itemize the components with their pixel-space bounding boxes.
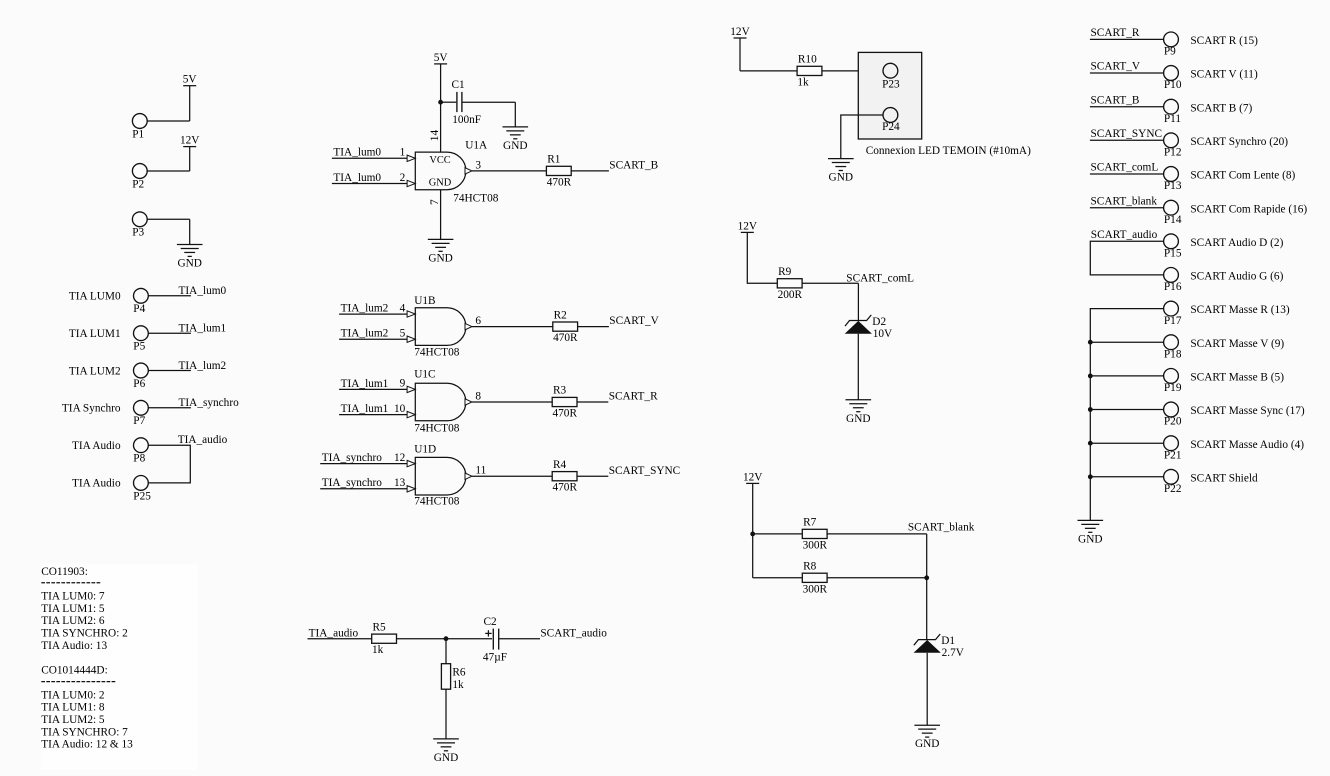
wire xyxy=(339,338,407,340)
svg-text:R10: R10 xyxy=(798,54,817,66)
connector P15 xyxy=(1164,234,1182,260)
wire xyxy=(740,70,797,72)
svg-text:P10: P10 xyxy=(1164,79,1182,91)
svg-text:P16: P16 xyxy=(1164,281,1182,293)
wire xyxy=(147,120,190,122)
svg-text:P2: P2 xyxy=(132,178,144,190)
svg-text:P19: P19 xyxy=(1164,382,1182,394)
svg-text:11: 11 xyxy=(475,465,486,477)
svg-text:SCART Masse V (9): SCART Masse V (9) xyxy=(1190,338,1284,350)
connector P22 xyxy=(1164,469,1182,495)
svg-text:8: 8 xyxy=(475,390,481,402)
svg-text:5: 5 xyxy=(400,328,406,340)
svg-text:SCART_blank: SCART_blank xyxy=(908,522,975,534)
svg-text:SCART Audio D (2): SCART Audio D (2) xyxy=(1190,237,1283,249)
wire xyxy=(1090,38,1164,40)
wire ground bus xyxy=(1090,309,1163,521)
svg-text:12V: 12V xyxy=(180,135,200,147)
svg-text:R1: R1 xyxy=(547,154,560,166)
wire xyxy=(189,86,191,121)
wire xyxy=(189,219,191,244)
svg-text:SCART_SYNC: SCART_SYNC xyxy=(1091,128,1163,140)
wire GND pin xyxy=(440,190,442,240)
wire xyxy=(1090,173,1164,175)
svg-text:SCART_comL: SCART_comL xyxy=(846,272,914,284)
resistor R5 xyxy=(372,621,397,656)
resistor R7 xyxy=(802,517,827,552)
junction xyxy=(438,100,443,105)
junction xyxy=(1088,474,1093,479)
wire xyxy=(857,283,859,320)
wire xyxy=(747,232,777,283)
svg-text:6: 6 xyxy=(475,315,481,327)
svg-text:47µF: 47µF xyxy=(483,651,507,663)
junction xyxy=(1088,340,1093,345)
svg-text:GND: GND xyxy=(829,172,853,184)
svg-text:TIA_lum1: TIA_lum1 xyxy=(179,323,227,335)
ground xyxy=(433,739,459,764)
connector P21 xyxy=(1164,436,1182,462)
svg-text:7: 7 xyxy=(429,199,441,205)
svg-text:TIA SYNCHRO: 7: TIA SYNCHRO: 7 xyxy=(41,726,128,738)
wire xyxy=(822,70,883,72)
connector P12 xyxy=(1164,133,1182,159)
svg-text:TIA Audio: 13: TIA Audio: 13 xyxy=(41,640,107,652)
svg-text:P9: P9 xyxy=(1164,46,1176,58)
wire xyxy=(1090,375,1163,377)
svg-text:SCART Com Rapide (16): SCART Com Rapide (16) xyxy=(1190,203,1307,215)
svg-text:Connexion LED TEMOIN (#10mA): Connexion LED TEMOIN (#10mA) xyxy=(866,145,1031,157)
wire xyxy=(577,475,608,477)
svg-text:14: 14 xyxy=(429,130,441,142)
svg-text:12V: 12V xyxy=(730,26,750,38)
wire xyxy=(148,370,191,372)
svg-text:VCC: VCC xyxy=(429,155,450,166)
wire xyxy=(339,313,407,315)
wire xyxy=(320,488,407,490)
svg-text:P3: P3 xyxy=(132,227,144,239)
wire xyxy=(802,282,858,284)
ground xyxy=(503,127,529,152)
AND gate U1A 74HCT08 xyxy=(400,140,499,205)
ground xyxy=(177,245,203,270)
connector P13 xyxy=(1164,167,1182,193)
svg-text:R8: R8 xyxy=(803,561,817,573)
svg-text:U1D: U1D xyxy=(414,444,436,456)
wire xyxy=(189,147,191,171)
wire xyxy=(472,326,553,328)
svg-text:GND: GND xyxy=(915,738,939,750)
wire xyxy=(332,183,407,185)
wire xyxy=(1090,106,1164,108)
svg-text:TIA LUM1: TIA LUM1 xyxy=(69,328,121,340)
svg-text:SCART_SYNC: SCART_SYNC xyxy=(609,465,681,477)
svg-text:TIA_synchro: TIA_synchro xyxy=(322,477,383,489)
resistor R10 xyxy=(797,54,822,89)
svg-text:74HCT08: 74HCT08 xyxy=(414,495,460,507)
wire xyxy=(514,102,516,127)
svg-text:GND: GND xyxy=(846,413,870,425)
svg-text:R6: R6 xyxy=(452,666,466,678)
svg-text:1k: 1k xyxy=(452,679,464,691)
AND gate U1D 74HCT08 xyxy=(394,444,486,508)
wire xyxy=(472,475,552,477)
wire xyxy=(147,218,190,220)
wire xyxy=(339,388,407,390)
wire xyxy=(857,334,859,400)
svg-text:SCART Com Lente (8): SCART Com Lente (8) xyxy=(1190,170,1295,182)
wire xyxy=(578,326,609,328)
resistor R6 1k xyxy=(441,664,466,691)
ground xyxy=(428,239,454,264)
svg-text:P5: P5 xyxy=(133,341,145,353)
connector P7 xyxy=(133,400,148,427)
svg-text:TIA Audio: TIA Audio xyxy=(72,440,121,452)
svg-text:SCART_audio: SCART_audio xyxy=(1091,229,1158,241)
wire xyxy=(148,332,191,334)
svg-text:300R: 300R xyxy=(803,583,828,595)
svg-text:74HCT08: 74HCT08 xyxy=(414,346,460,358)
svg-text:SCART_R: SCART_R xyxy=(1091,27,1140,39)
wire xyxy=(841,115,883,159)
svg-text:SCART_R: SCART_R xyxy=(609,391,658,403)
svg-text:TIA Synchro: TIA Synchro xyxy=(62,403,121,415)
wire xyxy=(472,401,552,403)
svg-text:300R: 300R xyxy=(803,539,828,551)
connector P2 xyxy=(132,164,147,191)
wire SCART_audio fork xyxy=(1090,241,1163,275)
svg-text:TIA_lum2: TIA_lum2 xyxy=(179,360,227,372)
connector P19 xyxy=(1164,369,1182,395)
junction xyxy=(1088,407,1093,412)
connector P1 xyxy=(132,114,147,141)
power 5V xyxy=(183,74,198,86)
junction xyxy=(924,575,929,580)
wire xyxy=(1090,341,1163,343)
svg-text:C1: C1 xyxy=(452,79,465,91)
svg-text:R7: R7 xyxy=(803,517,817,529)
resistor R8 xyxy=(802,561,827,596)
svg-text:P11: P11 xyxy=(1164,113,1181,125)
svg-text:10: 10 xyxy=(394,403,406,415)
connector P6 xyxy=(133,363,148,390)
svg-text:1k: 1k xyxy=(797,76,809,88)
capacitor C1 100nF xyxy=(441,79,481,126)
wire xyxy=(148,295,191,297)
svg-text:9: 9 xyxy=(400,378,406,390)
svg-text:P12: P12 xyxy=(1164,147,1182,159)
wire xyxy=(577,401,608,403)
resistor R3 xyxy=(552,385,577,420)
svg-text:200R: 200R xyxy=(778,289,803,301)
wire xyxy=(320,463,407,465)
svg-text:SCART Shield: SCART Shield xyxy=(1190,472,1258,484)
svg-text:13: 13 xyxy=(394,477,406,489)
svg-text:SCART Masse Sync (17): SCART Masse Sync (17) xyxy=(1190,405,1305,417)
wire xyxy=(926,534,928,640)
svg-text:P22: P22 xyxy=(1164,483,1182,495)
svg-text:P4: P4 xyxy=(133,303,145,315)
svg-text:P17: P17 xyxy=(1164,315,1182,327)
power 12V xyxy=(743,471,763,483)
svg-text:TIA LUM0: 2: TIA LUM0: 2 xyxy=(41,689,105,701)
svg-text:P20: P20 xyxy=(1164,416,1182,428)
AND gate U1B 74HCT08 xyxy=(400,295,482,359)
svg-text:TIA_lum0: TIA_lum0 xyxy=(333,172,381,184)
svg-text:P14: P14 xyxy=(1164,214,1182,226)
svg-text:SCART V (11): SCART V (11) xyxy=(1190,69,1258,81)
svg-text:R5: R5 xyxy=(373,621,387,633)
wire xyxy=(1090,207,1164,209)
connector P23 xyxy=(882,63,900,90)
svg-text:1: 1 xyxy=(400,147,406,159)
svg-text:TIA_lum0: TIA_lum0 xyxy=(179,285,227,297)
wire xyxy=(462,101,515,103)
svg-text:GND: GND xyxy=(177,258,201,270)
svg-text:U1A: U1A xyxy=(465,140,488,152)
connector P11 xyxy=(1164,99,1181,125)
svg-text:P6: P6 xyxy=(133,378,145,390)
svg-text:SCART Audio G (6): SCART Audio G (6) xyxy=(1190,271,1283,283)
wire xyxy=(445,689,447,739)
resistor R4 xyxy=(552,459,577,494)
svg-text:R2: R2 xyxy=(554,309,568,321)
connector P16 xyxy=(1164,268,1182,294)
svg-text:TIA_lum2: TIA_lum2 xyxy=(341,328,389,340)
svg-text:TIA_audio: TIA_audio xyxy=(178,434,228,446)
svg-text:R9: R9 xyxy=(778,266,792,278)
connector P5 xyxy=(133,326,148,353)
svg-text:10V: 10V xyxy=(873,328,893,340)
connector P9 xyxy=(1164,32,1179,58)
wire xyxy=(445,639,447,664)
svg-text:SCART_blank: SCART_blank xyxy=(1091,195,1158,207)
svg-text:5V: 5V xyxy=(183,74,198,86)
svg-text:TIA LUM2: 6: TIA LUM2: 6 xyxy=(41,615,105,627)
ground xyxy=(828,159,854,184)
connector P4 xyxy=(133,288,148,315)
wire xyxy=(308,638,372,640)
svg-text:SCART Masse Audio (4): SCART Masse Audio (4) xyxy=(1190,439,1304,451)
wire xyxy=(827,577,927,579)
zener diode D2 xyxy=(845,315,893,340)
wire xyxy=(147,170,190,172)
svg-text:U1C: U1C xyxy=(414,368,435,380)
svg-text:TIA LUM0: 7: TIA LUM0: 7 xyxy=(41,591,105,603)
wire xyxy=(499,638,540,640)
svg-text:C2: C2 xyxy=(484,616,498,628)
wire xyxy=(148,407,191,409)
svg-text:D1: D1 xyxy=(941,635,955,647)
wire xyxy=(397,638,493,640)
svg-text:1k: 1k xyxy=(372,644,384,656)
wire xyxy=(1090,72,1164,74)
svg-text:GND: GND xyxy=(434,752,458,764)
svg-text:GND: GND xyxy=(503,140,527,152)
svg-text:470R: 470R xyxy=(547,176,572,188)
svg-text:P23: P23 xyxy=(882,78,900,90)
svg-text:P1: P1 xyxy=(132,128,144,140)
resistor R1 xyxy=(546,154,571,189)
wire xyxy=(571,170,609,172)
svg-text:SCART_comL: SCART_comL xyxy=(1091,162,1159,174)
wire xyxy=(753,533,803,535)
connector P25 xyxy=(133,476,151,503)
svg-text:TIA_synchro: TIA_synchro xyxy=(322,452,383,464)
notes background panel xyxy=(41,564,198,771)
resistor R2 xyxy=(553,309,578,344)
svg-text:P18: P18 xyxy=(1164,348,1182,360)
wire TIA_audio bracket xyxy=(148,445,190,483)
svg-text:TIA_synchro: TIA_synchro xyxy=(179,397,240,409)
svg-text:TIA_lum2: TIA_lum2 xyxy=(341,303,389,315)
svg-text:P15: P15 xyxy=(1164,248,1182,260)
connector P20 xyxy=(1164,402,1182,428)
svg-text:3: 3 xyxy=(475,159,481,171)
svg-text:P25: P25 xyxy=(133,490,151,502)
power 12V xyxy=(730,26,750,38)
svg-text:TIA_lum1: TIA_lum1 xyxy=(341,378,389,390)
svg-text:P24: P24 xyxy=(882,121,900,133)
wire xyxy=(1090,476,1163,478)
svg-text:2.7V: 2.7V xyxy=(942,647,965,659)
capacitor C2 47uF xyxy=(483,616,507,663)
AND gate U1C 74HCT08 xyxy=(394,368,481,434)
svg-text:U1B: U1B xyxy=(414,295,435,307)
svg-text:P13: P13 xyxy=(1164,180,1182,192)
power 12V xyxy=(738,220,758,232)
wire xyxy=(926,653,928,725)
connector P10 xyxy=(1164,66,1182,92)
wire xyxy=(1090,442,1163,444)
svg-text:TIA Audio: 12 & 13: TIA Audio: 12 & 13 xyxy=(41,739,133,751)
svg-text:5V: 5V xyxy=(434,52,449,64)
svg-text:TIA_lum1: TIA_lum1 xyxy=(341,403,389,415)
wire xyxy=(753,577,803,579)
svg-text:P7: P7 xyxy=(133,415,145,427)
ground xyxy=(1078,520,1104,545)
svg-text:D2: D2 xyxy=(872,316,886,328)
wire xyxy=(1090,139,1164,141)
connector P24 xyxy=(882,108,900,133)
svg-text:470R: 470R xyxy=(553,408,578,420)
svg-text:SCART B (7): SCART B (7) xyxy=(1190,102,1252,114)
wire VCC xyxy=(440,64,442,152)
svg-text:SCART_B: SCART_B xyxy=(609,160,658,172)
svg-text:GND: GND xyxy=(1078,533,1102,545)
svg-text:GND: GND xyxy=(429,177,452,188)
zener diode D1 xyxy=(914,634,965,659)
svg-text:TIA SYNCHRO: 2: TIA SYNCHRO: 2 xyxy=(41,628,128,640)
power 12V xyxy=(180,135,200,147)
note pinout table CO11903 / CO1014444D xyxy=(41,566,133,751)
wire xyxy=(332,157,407,159)
power 5V xyxy=(434,52,449,64)
junction xyxy=(1088,374,1093,379)
junction xyxy=(1088,441,1093,446)
wire xyxy=(739,38,741,71)
ground xyxy=(846,400,872,425)
LED connector box xyxy=(858,52,921,139)
connector P8 xyxy=(133,438,148,465)
junction xyxy=(444,636,449,641)
svg-text:12V: 12V xyxy=(738,220,758,232)
wire xyxy=(472,170,547,172)
ground xyxy=(914,725,940,750)
svg-text:12V: 12V xyxy=(743,471,763,483)
svg-text:CO11903:: CO11903: xyxy=(41,566,88,578)
svg-text:SCART Masse B (5): SCART Masse B (5) xyxy=(1190,372,1284,384)
svg-text:TIA LUM1: 5: TIA LUM1: 5 xyxy=(41,603,105,615)
svg-text:P21: P21 xyxy=(1164,449,1182,461)
svg-text:R3: R3 xyxy=(553,385,567,397)
svg-text:2: 2 xyxy=(400,172,406,184)
svg-text:TIA Audio: TIA Audio xyxy=(72,478,121,490)
svg-text:TIA_audio: TIA_audio xyxy=(309,627,359,639)
svg-text:SCART R (15): SCART R (15) xyxy=(1190,35,1258,47)
svg-text:TIA_lum0: TIA_lum0 xyxy=(333,147,381,159)
svg-text:74HCT08: 74HCT08 xyxy=(414,422,460,434)
svg-text:74HCT08: 74HCT08 xyxy=(453,193,499,205)
svg-text:R4: R4 xyxy=(553,459,567,471)
svg-text:SCART_V: SCART_V xyxy=(1091,61,1141,73)
svg-text:12: 12 xyxy=(394,452,406,464)
connector P17 xyxy=(1164,301,1182,327)
connector P3 xyxy=(132,212,147,239)
connector P18 xyxy=(1164,335,1182,361)
svg-text:SCART_audio: SCART_audio xyxy=(540,627,607,639)
svg-text:TIA LUM2: TIA LUM2 xyxy=(69,365,121,377)
svg-text:TIA LUM2: 5: TIA LUM2: 5 xyxy=(41,714,105,726)
connector P14 xyxy=(1164,200,1182,226)
svg-text:SCART_B: SCART_B xyxy=(1091,94,1140,106)
svg-text:SCART Masse R (13): SCART Masse R (13) xyxy=(1190,304,1289,316)
junction xyxy=(750,532,755,537)
svg-text:4: 4 xyxy=(400,302,406,314)
svg-text:470R: 470R xyxy=(553,482,578,494)
svg-text:CO1014444D:: CO1014444D: xyxy=(41,665,108,677)
resistor R9 xyxy=(777,266,802,301)
svg-text:TIA LUM1: 8: TIA LUM1: 8 xyxy=(41,702,105,714)
wire xyxy=(752,483,754,577)
svg-text:100nF: 100nF xyxy=(452,114,481,126)
wire xyxy=(339,414,407,416)
svg-text:TIA LUM0: TIA LUM0 xyxy=(69,291,121,303)
svg-text:470R: 470R xyxy=(553,332,578,344)
wire xyxy=(827,533,927,535)
svg-text:SCART_V: SCART_V xyxy=(609,315,659,327)
svg-text:P8: P8 xyxy=(133,453,145,465)
svg-text:GND: GND xyxy=(428,252,452,264)
svg-text:SCART Synchro (20): SCART Synchro (20) xyxy=(1190,136,1288,148)
wire xyxy=(1090,409,1163,411)
